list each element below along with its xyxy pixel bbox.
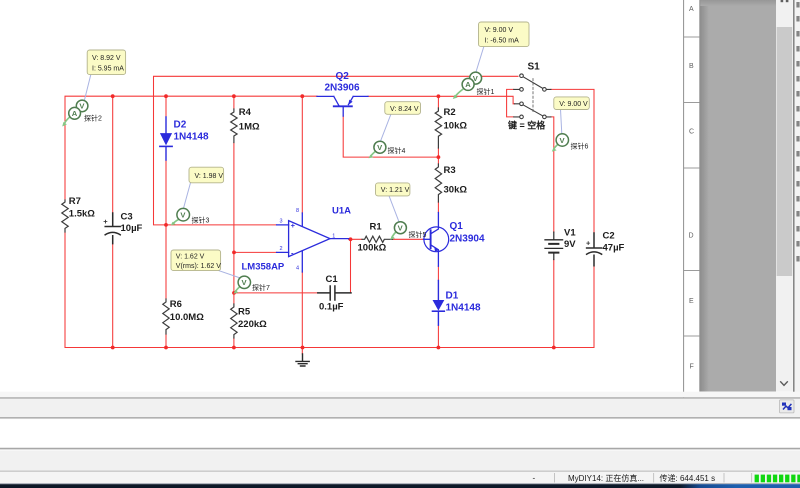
probe label box 4 xyxy=(385,102,421,115)
svg-text:B: B xyxy=(689,63,694,70)
svg-text:4: 4 xyxy=(296,266,299,272)
svg-text:I: -6.50 mA: I: -6.50 mA xyxy=(485,38,520,45)
svg-text:V: 8.24 V: V: 8.24 V xyxy=(390,106,419,113)
probe label box 7 xyxy=(171,250,221,271)
wire: Q2 base to R2/R3 junction xyxy=(343,116,438,157)
component labels (blue) xyxy=(174,71,485,314)
capacitor C2 (polarized) xyxy=(586,233,602,266)
windows taskbar strip xyxy=(0,484,800,488)
vertical scrollbar xyxy=(776,0,793,392)
svg-text:R3: R3 xyxy=(444,165,456,176)
svg-text:Q1: Q1 xyxy=(450,221,464,232)
svg-text:1N4148: 1N4148 xyxy=(174,132,209,143)
probe label box 1 xyxy=(479,22,530,47)
svg-text:10kΩ: 10kΩ xyxy=(444,121,468,132)
wire: Q1 / R2 / R3 / D1 column segments xyxy=(437,96,439,347)
wire: switch throw6 to V1 column xyxy=(551,117,554,348)
resistor R3 xyxy=(435,164,441,202)
wire: top rail, inner-left vertical and op-amp +input feed xyxy=(154,76,519,225)
probe 4 (V) xyxy=(369,141,406,158)
probe 6 (V) xyxy=(552,134,589,152)
resistor R7 xyxy=(62,200,68,232)
resistor R5 xyxy=(231,304,237,338)
svg-text:A: A xyxy=(72,109,78,118)
svg-text:47µF: 47µF xyxy=(603,243,625,254)
svg-text:R4: R4 xyxy=(239,107,252,118)
svg-text:探针6: 探针6 xyxy=(571,141,589,150)
svg-text:D: D xyxy=(689,233,694,240)
probe label box 3 xyxy=(189,167,224,183)
capacitor C1 xyxy=(318,286,351,300)
resistor R6 xyxy=(163,299,169,334)
off-sheet gray area xyxy=(700,0,776,392)
svg-text:1: 1 xyxy=(332,233,335,239)
wire: switch throw2 to C2 column xyxy=(551,89,594,233)
svg-text:2N3904: 2N3904 xyxy=(450,234,485,245)
wire: op-amp power column and ground stub xyxy=(301,96,303,354)
svg-text:V: 1.21 V: V: 1.21 V xyxy=(381,187,410,194)
svg-text:Q2: Q2 xyxy=(336,71,350,82)
svg-text:U1A: U1A xyxy=(332,206,351,217)
wire: left rail top segment with main top-left rail xyxy=(65,96,317,200)
svg-text:R7: R7 xyxy=(69,196,81,207)
svg-text:V: 1.98 V: V: 1.98 V xyxy=(195,173,224,180)
svg-text:探针5: 探针5 xyxy=(409,230,427,239)
svg-text:探针3: 探针3 xyxy=(192,216,210,225)
resistor R1 (horizontal) xyxy=(362,236,393,242)
svg-text:键 = 空格: 键 = 空格 xyxy=(507,120,546,131)
switch S1 xyxy=(514,74,551,119)
svg-text:100kΩ: 100kΩ xyxy=(358,243,387,254)
svg-text:V(rms): 1.62 V: V(rms): 1.62 V xyxy=(176,263,221,270)
capacitor C3 (polarized) xyxy=(103,213,120,244)
svg-text:0.1µF: 0.1µF xyxy=(319,302,344,313)
right collapsed panel strip xyxy=(794,0,800,397)
wire: op-amp output to R1 and R1 to Q1 base xyxy=(349,238,424,240)
svg-text:2N3906: 2N3906 xyxy=(325,83,360,94)
svg-text:C: C xyxy=(689,129,694,136)
svg-text:R2: R2 xyxy=(444,107,456,118)
resistor R4 xyxy=(231,109,237,143)
probe label box 6 xyxy=(554,97,590,110)
svg-text:V: 1.62 V: V: 1.62 V xyxy=(176,253,205,260)
svg-text:2: 2 xyxy=(280,246,283,252)
transistor Q1 (NPN, vertical, with circle) xyxy=(424,213,449,267)
probe 7 (V) xyxy=(234,276,270,294)
wire: D2 / R6 column xyxy=(165,96,167,347)
svg-text:220kΩ: 220kΩ xyxy=(238,319,267,330)
resistor R2 xyxy=(435,108,441,148)
svg-text:-: - xyxy=(533,474,536,483)
svg-text:V: 8.92 V: V: 8.92 V xyxy=(92,55,121,62)
wire: op-amp minus input xyxy=(234,251,277,253)
svg-text:10µF: 10µF xyxy=(121,223,143,234)
svg-text:探针2: 探针2 xyxy=(84,114,102,123)
probe 1 (A+V) xyxy=(453,72,495,99)
probe label box 2 xyxy=(87,50,125,75)
svg-text:LM358AP: LM358AP xyxy=(242,262,285,273)
probe label box 5 xyxy=(376,183,410,196)
diode D2 xyxy=(160,117,172,160)
svg-text:探针1: 探针1 xyxy=(477,87,495,96)
wire: main rail right of Q2 to switch jogs xyxy=(368,89,515,117)
probe 3 (V) xyxy=(171,208,210,225)
netlist toolbar button (blue icon) xyxy=(780,400,795,413)
svg-text:3: 3 xyxy=(280,219,283,225)
svg-text:V1: V1 xyxy=(564,228,576,239)
wire: left rail lower + bottom rail + C2 riser xyxy=(65,232,594,348)
svg-text:A: A xyxy=(465,80,471,89)
svg-text:R6: R6 xyxy=(170,299,182,310)
sheet border ruler column xyxy=(684,0,700,397)
svg-text:C2: C2 xyxy=(603,231,615,242)
svg-text:+: + xyxy=(103,217,108,226)
wire: feedback line and C1 riser xyxy=(234,239,351,293)
svg-text:1N4148: 1N4148 xyxy=(446,303,481,314)
svg-text:C3: C3 xyxy=(121,212,133,223)
svg-text:V: 9.00 V: V: 9.00 V xyxy=(559,101,588,108)
svg-text:R5: R5 xyxy=(238,307,251,318)
svg-text:D2: D2 xyxy=(174,120,187,131)
probe 5 (V) xyxy=(390,222,426,240)
wire: C3 column xyxy=(112,96,114,347)
ground xyxy=(296,354,309,366)
svg-text:D1: D1 xyxy=(446,291,459,302)
svg-text:1.5kΩ: 1.5kΩ xyxy=(69,209,95,220)
probe 2 (A+V) xyxy=(62,100,102,126)
svg-text:MyDIY14: 正在仿真...: MyDIY14: 正在仿真... xyxy=(568,473,644,483)
probe leader lines xyxy=(84,46,561,278)
svg-text:8: 8 xyxy=(296,208,299,214)
svg-text:V: 9.00 V: V: 9.00 V xyxy=(485,27,514,34)
svg-text:+: + xyxy=(291,221,296,230)
svg-text:A: A xyxy=(689,6,694,13)
op-amp U1 LM358AP xyxy=(277,208,349,272)
svg-text:9V: 9V xyxy=(564,239,576,250)
svg-text:C1: C1 xyxy=(326,274,339,285)
status bar xyxy=(533,473,752,483)
svg-text:1MΩ: 1MΩ xyxy=(239,122,260,133)
svg-text:E: E xyxy=(689,298,694,305)
svg-text:探针7: 探针7 xyxy=(252,283,270,292)
wire: R4 / R5 column xyxy=(233,96,235,347)
svg-text:S1: S1 xyxy=(528,62,541,73)
bottom docked panels xyxy=(0,392,800,483)
svg-text:传递: 644.451 s: 传递: 644.451 s xyxy=(660,473,716,483)
svg-text:10.0MΩ: 10.0MΩ xyxy=(170,312,204,323)
component labels (black) xyxy=(69,62,625,331)
diode D1 xyxy=(433,280,445,325)
svg-text:+: + xyxy=(586,239,591,248)
svg-text:30kΩ: 30kΩ xyxy=(444,185,468,196)
svg-text:R1: R1 xyxy=(370,222,383,233)
svg-text:F: F xyxy=(690,364,694,371)
simulation progress bar (green segments) xyxy=(755,475,800,483)
transistor Q2 (PNP, horizontal) xyxy=(317,96,368,116)
svg-text:探针4: 探针4 xyxy=(388,146,406,155)
battery V1 xyxy=(545,232,563,259)
svg-text:I: 5.95 mA: I: 5.95 mA xyxy=(92,66,124,73)
